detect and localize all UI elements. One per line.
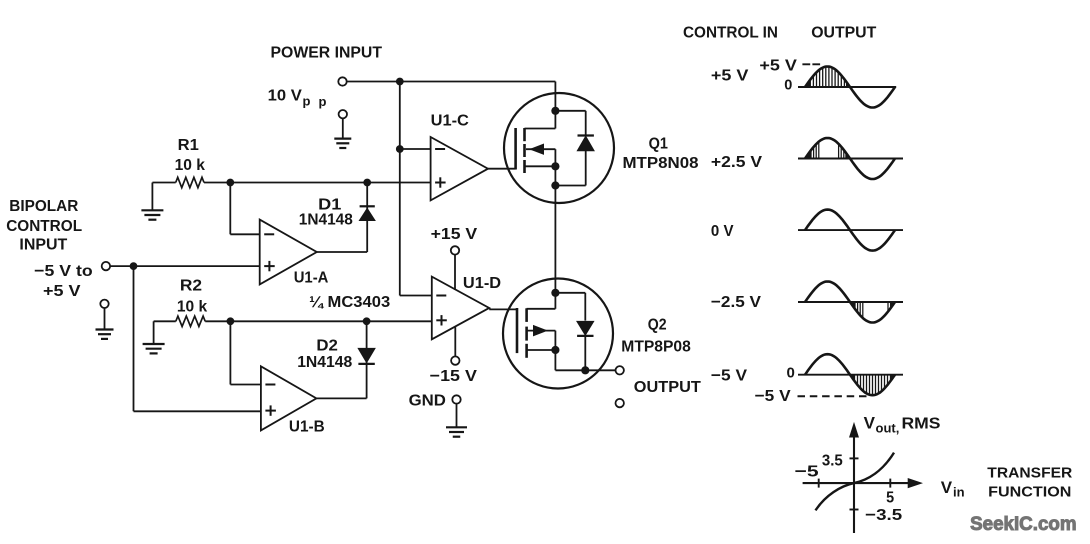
svg-text:V: V [941,478,953,497]
svg-text:0 V: 0 V [711,223,734,240]
svg-text:−15 V: −15 V [430,368,478,385]
svg-text:p: p [303,93,311,108]
svg-text:U1-C: U1-C [431,112,470,129]
svg-text:1N4148: 1N4148 [297,354,352,371]
svg-text:R1: R1 [178,137,199,154]
svg-text:+5 V: +5 V [43,283,81,300]
svg-text:CONTROL IN: CONTROL IN [683,25,778,42]
svg-text:POWER INPUT: POWER INPUT [271,45,383,62]
svg-text:TRANSFER: TRANSFER [987,465,1073,481]
svg-text:0: 0 [784,78,792,94]
svg-text:GND: GND [409,393,446,410]
svg-text:1N4148: 1N4148 [299,212,353,229]
svg-text:−5 V to: −5 V to [34,263,93,280]
svg-text:−3.5: −3.5 [865,507,902,524]
svg-text:10 V: 10 V [268,88,303,105]
svg-text:Q1: Q1 [649,136,668,153]
svg-text:FUNCTION: FUNCTION [988,484,1071,500]
svg-text:MTP8P08: MTP8P08 [621,339,691,356]
svg-text:V: V [864,414,876,433]
svg-text:D2: D2 [316,337,338,354]
svg-text:R2: R2 [180,277,202,294]
svg-text:3.5: 3.5 [822,453,843,470]
svg-text:p: p [319,94,327,109]
svg-text:+15 V: +15 V [431,226,478,243]
svg-text:MTP8N08: MTP8N08 [623,155,699,172]
svg-text:U1-A: U1-A [294,270,329,287]
svg-text:¼ MC3403: ¼ MC3403 [309,294,390,311]
svg-text:in: in [953,485,965,500]
svg-text:U1-D: U1-D [463,275,501,292]
svg-text:−5 V: −5 V [755,388,791,405]
svg-text:0: 0 [787,365,795,382]
svg-text:U1-B: U1-B [289,419,325,436]
svg-text:−5: −5 [795,464,819,481]
svg-text:+5 V: +5 V [711,68,749,85]
svg-text:BIPOLAR: BIPOLAR [9,198,78,215]
svg-text:+5 V: +5 V [759,58,797,75]
svg-text:−2.5 V: −2.5 V [711,294,761,311]
svg-text:Q2: Q2 [648,317,667,334]
svg-text:−5 V: −5 V [711,367,747,384]
svg-text:SeekIC.com: SeekIC.com [970,513,1077,535]
svg-text:10 k: 10 k [177,299,207,316]
svg-text:OUTPUT: OUTPUT [811,25,876,42]
svg-text:CONTROL: CONTROL [6,218,82,235]
svg-text:out,: out, [876,421,900,436]
svg-text:5: 5 [886,489,894,506]
svg-text:OUTPUT: OUTPUT [634,379,701,396]
svg-text:+2.5 V: +2.5 V [711,154,762,171]
svg-text:RMS: RMS [902,416,941,433]
svg-text:INPUT: INPUT [19,237,67,254]
svg-text:10 k: 10 k [175,157,205,174]
